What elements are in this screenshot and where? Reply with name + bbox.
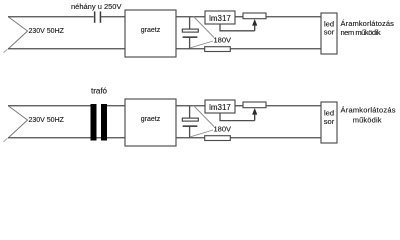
wire: potentiometer to led sor	[266, 105, 321, 107]
wire: top rail, graetz to lm317	[176, 16, 205, 18]
transformer T1 bars	[91, 104, 108, 141]
svg-text:trafó: trafó	[91, 86, 108, 95]
svg-text:graetz: graetz	[141, 27, 161, 34]
wire: resistor R2 to led sor	[230, 137, 321, 139]
svg-text:sor: sor	[324, 28, 335, 37]
potentiometer RV2 wiper arrow	[252, 108, 257, 121]
leader line: 180V to bottom rail	[190, 130, 213, 137]
resistor R1 (bottom rail)	[205, 47, 231, 52]
svg-text:Áramkorlátozás: Áramkorlátozás	[341, 106, 396, 115]
wire: bottom rail, source to graetz	[8, 137, 125, 139]
wire: lm317 to potentiometer	[235, 16, 243, 18]
svg-text:néhány u 250V: néhány u 250V	[71, 2, 121, 11]
svg-text:180V: 180V	[214, 125, 232, 134]
AC source V1 overshoot tick	[4, 49, 8, 53]
annotation: Áramkorlátozás működik	[341, 106, 396, 125]
svg-text:180V: 180V	[214, 36, 232, 45]
svg-text:működik: működik	[353, 116, 382, 125]
capacitor C3 bottom lead	[189, 127, 191, 138]
svg-text:nem működik: nem működik	[341, 28, 381, 37]
wire: bottom rail, graetz to resistor R1	[176, 48, 205, 50]
LED string load box (led sor)	[321, 102, 337, 143]
potentiometer RV1 body	[243, 13, 266, 19]
capacitor C2 bottom lead	[189, 38, 191, 49]
capacitor C2 negative plate	[183, 36, 198, 38]
wire: lm317 adjust pin to wiper	[220, 113, 255, 121]
capacitor C2 (smoothing) top lead	[189, 17, 191, 29]
wire: top rail, series capacitor to graetz	[101, 16, 125, 18]
capacitor C3 positive plate (hollow box)	[182, 118, 198, 121]
svg-text:graetz: graetz	[141, 116, 161, 123]
capacitor C1 (series, mains)	[94, 11, 101, 22]
leader line: 180V to top rail	[194, 106, 215, 127]
potentiometer RV1 wiper arrow	[252, 19, 257, 31]
wire: lm317 adjust pin to wiper	[220, 24, 255, 31]
leader line: 180V to top rail	[194, 17, 215, 38]
AC source V2 overshoot tick	[4, 138, 8, 142]
wire: resistor R1 to led sor	[230, 48, 321, 50]
rectifier U3 graetz box	[125, 99, 176, 146]
wire: top rail, source to series capacitor	[8, 16, 94, 18]
wire: bottom rail, graetz to resistor R2	[176, 137, 205, 139]
annotation: Áramkorlátozás nem működik	[341, 19, 395, 37]
resistor R2 (bottom rail)	[205, 136, 231, 141]
capacitor C3 negative plate	[183, 125, 198, 127]
AC source V1 symbol (chevron)	[9, 17, 28, 49]
regulator U4 lm317 box	[205, 100, 235, 113]
svg-text:230V 50HZ: 230V 50HZ	[29, 28, 65, 35]
svg-text:230V 50HZ: 230V 50HZ	[29, 117, 65, 124]
wire: top rail, graetz to lm317	[176, 105, 205, 107]
AC source V2 symbol (chevron)	[9, 106, 28, 138]
wire: lm317 to potentiometer	[235, 105, 243, 107]
regulator U2 lm317 box	[205, 11, 235, 24]
potentiometer RV2 body	[243, 102, 266, 108]
wire: top rail, source to transformer	[8, 105, 91, 107]
rectifier U1 graetz box	[125, 10, 176, 57]
capacitor C3 (smoothing) top lead	[189, 106, 191, 118]
svg-text:sor: sor	[324, 117, 335, 126]
wire: potentiometer to led sor	[266, 16, 321, 18]
capacitor C2 positive plate (hollow box)	[182, 29, 198, 32]
svg-text:Áramkorlátozás: Áramkorlátozás	[341, 19, 395, 28]
wire: top rail, transformer to graetz	[107, 105, 125, 107]
wire: bottom rail, source to graetz	[8, 48, 125, 50]
LED string load box (led sor)	[321, 13, 337, 54]
leader line: 180V to bottom rail	[190, 41, 213, 48]
svg-text:lm317: lm317	[209, 103, 231, 112]
svg-text:lm317: lm317	[209, 14, 231, 23]
